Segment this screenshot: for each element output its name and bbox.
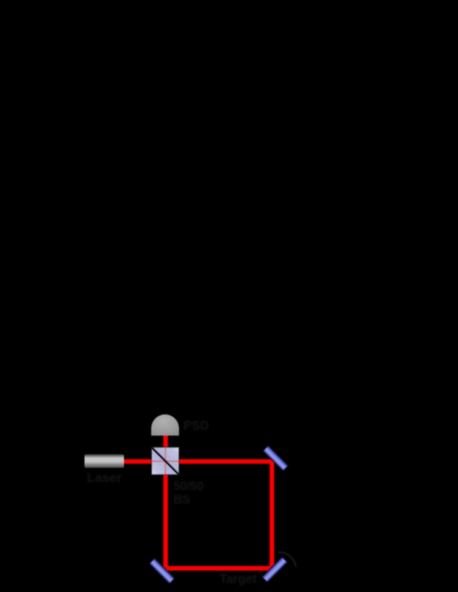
svg-text:Laser: Laser <box>87 470 122 485</box>
beamsplitter BS1 cube <box>152 447 180 475</box>
mirror M2 bottom-left <box>149 558 174 583</box>
laser LS1 <box>85 454 125 468</box>
rotation arc at target <box>278 552 296 567</box>
svg-text:BS: BS <box>174 493 191 507</box>
svg-text:50/50: 50/50 <box>174 479 204 493</box>
mirror M1 top-right <box>263 446 288 471</box>
detector PSD dome <box>151 414 179 435</box>
beamsplitter diagonal <box>152 448 179 475</box>
svg-text:PSD: PSD <box>184 419 210 433</box>
mirror M3 target bottom-right <box>262 557 287 582</box>
wire: red beam square path <box>124 436 272 569</box>
faint beam through cube <box>152 448 179 475</box>
svg-text:Target: Target <box>220 572 258 586</box>
